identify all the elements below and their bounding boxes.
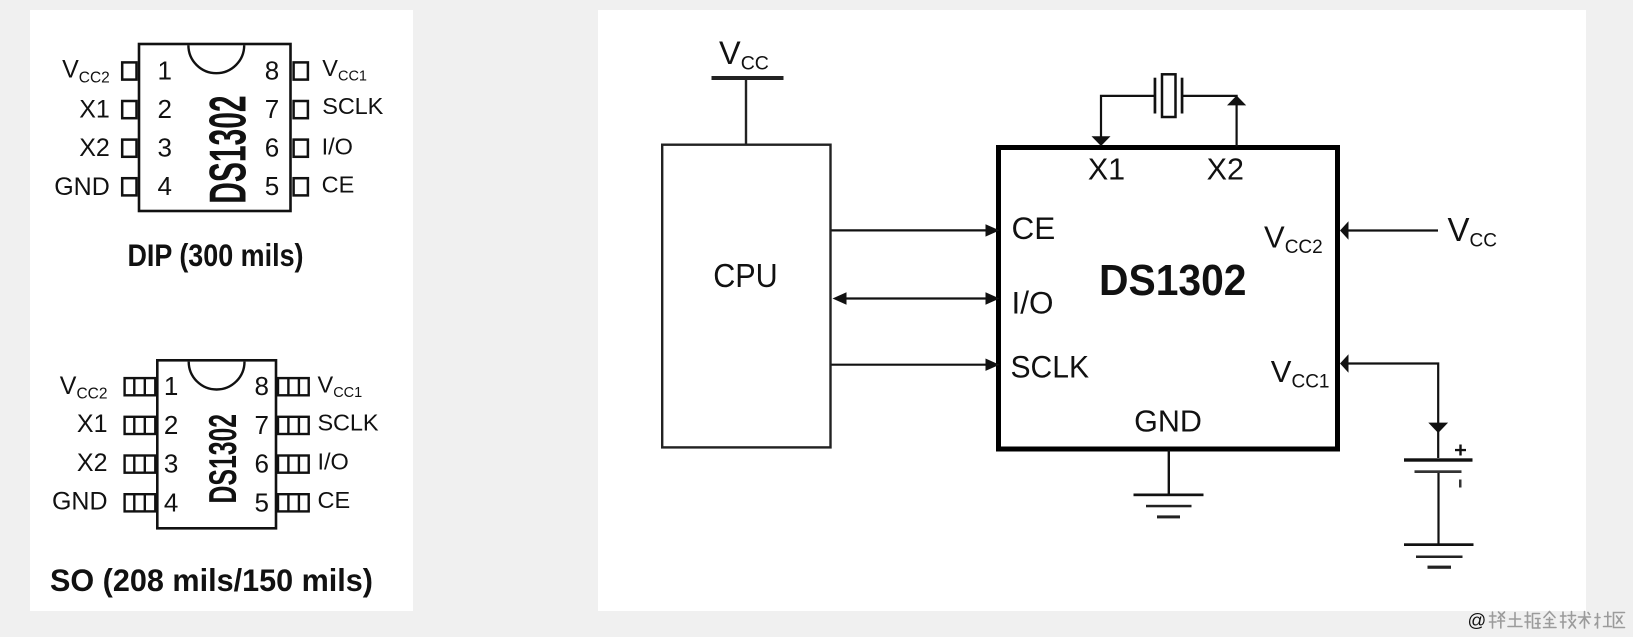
svg-text:1: 1 bbox=[164, 371, 178, 401]
ground (GND pin) bbox=[1134, 494, 1204, 497]
svg-text:GND: GND bbox=[52, 488, 108, 516]
right white panel bbox=[598, 10, 1586, 611]
wire VCC to VCC2 pin bbox=[1347, 229, 1438, 231]
pin 3 pad bbox=[125, 456, 156, 473]
svg-text:I/O: I/O bbox=[318, 448, 349, 474]
pin 1 pad bbox=[122, 62, 136, 79]
crystal Y1 wire to X2 bbox=[1182, 96, 1237, 147]
pin 4 pad bbox=[122, 178, 136, 195]
glyph she bbox=[1595, 612, 1612, 628]
svg-text:GND: GND bbox=[54, 173, 110, 201]
svg-text:8: 8 bbox=[265, 55, 279, 85]
svg-text:2: 2 bbox=[158, 94, 172, 124]
glyph shu bbox=[1579, 612, 1591, 629]
svg-text:I/O: I/O bbox=[1012, 285, 1054, 321]
IC body U1 DIP bbox=[139, 44, 291, 211]
arrowhead into VCC1 bbox=[1340, 354, 1349, 372]
wire VCC to CPU bbox=[745, 80, 747, 145]
svg-text:8: 8 bbox=[255, 371, 269, 401]
arrowhead down toward battery bbox=[1428, 423, 1448, 433]
VCC supply bar bbox=[712, 76, 784, 80]
svg-text:DS1302: DS1302 bbox=[199, 95, 256, 203]
pin 5 pad bbox=[278, 494, 309, 511]
pin 3 pad bbox=[122, 140, 136, 157]
svg-text:X2: X2 bbox=[79, 134, 110, 162]
svg-text:X1: X1 bbox=[1088, 153, 1125, 187]
svg-text:CE: CE bbox=[318, 487, 351, 513]
watermark bbox=[1468, 610, 1625, 631]
pin 8 pad bbox=[278, 378, 309, 395]
pin 7 pad bbox=[278, 417, 309, 434]
crystal Y1 body bbox=[1162, 74, 1176, 117]
arrowhead I/O into DS1302 bbox=[986, 292, 1000, 304]
glyph jin bbox=[1544, 612, 1557, 628]
svg-text:5: 5 bbox=[255, 487, 269, 517]
battery B1 negative plate bbox=[1415, 470, 1462, 473]
svg-text:I/O: I/O bbox=[322, 134, 353, 160]
svg-text:7: 7 bbox=[255, 410, 269, 440]
glyph qu bbox=[1614, 613, 1625, 628]
IC U2 DS1302 box bbox=[999, 148, 1338, 450]
crystal Y1 left plate bbox=[1154, 78, 1157, 114]
CPU box bbox=[662, 145, 830, 448]
svg-text:X2: X2 bbox=[77, 449, 108, 477]
glyph xi bbox=[1490, 612, 1505, 628]
svg-text:CE: CE bbox=[1012, 210, 1056, 246]
wire SCLK (CPU to DS1302) bbox=[832, 364, 987, 366]
svg-text:CE: CE bbox=[322, 172, 355, 198]
pin 8 pad bbox=[294, 62, 308, 79]
arrowhead into VCC2 bbox=[1340, 221, 1349, 239]
left white panel bbox=[30, 10, 413, 611]
svg-text:DS1302: DS1302 bbox=[201, 414, 244, 504]
arrowhead I/O into CPU bbox=[833, 292, 847, 304]
crystal Y1 wire to X1 bbox=[1101, 96, 1155, 137]
glyph tu bbox=[1508, 613, 1522, 627]
glyph jue bbox=[1525, 612, 1540, 628]
arrowhead SCLK into DS1302 bbox=[986, 359, 1000, 371]
wire battery to VCC1 pin bbox=[1348, 364, 1438, 459]
svg-text:4: 4 bbox=[158, 171, 172, 201]
svg-text:DIP (300 mils): DIP (300 mils) bbox=[128, 237, 304, 273]
svg-text:3: 3 bbox=[164, 449, 178, 479]
svg-text:7: 7 bbox=[265, 94, 279, 124]
svg-text:X2: X2 bbox=[1207, 153, 1244, 187]
svg-text:@: @ bbox=[1468, 610, 1487, 631]
svg-text:SO (208 mils/150 mils): SO (208 mils/150 mils) bbox=[50, 562, 373, 598]
svg-text:2: 2 bbox=[164, 410, 178, 440]
svg-text:X1: X1 bbox=[79, 96, 110, 124]
svg-text:SCLK: SCLK bbox=[318, 410, 379, 436]
pin 4 pad bbox=[125, 494, 156, 511]
svg-text:GND: GND bbox=[1134, 405, 1202, 439]
pin 2 pad bbox=[122, 101, 136, 118]
pin 2 pad bbox=[125, 417, 156, 434]
pin 7 pad bbox=[294, 101, 308, 118]
svg-text:DS1302: DS1302 bbox=[1099, 257, 1247, 305]
svg-text:1: 1 bbox=[158, 55, 172, 85]
svg-text:6: 6 bbox=[265, 133, 279, 163]
wire I/O (bidirectional) bbox=[845, 297, 986, 299]
svg-text:3: 3 bbox=[158, 133, 172, 163]
pin 6 pad bbox=[294, 140, 308, 157]
svg-text:5: 5 bbox=[265, 171, 279, 201]
battery B1 positive plate bbox=[1404, 458, 1473, 461]
svg-text:CPU: CPU bbox=[713, 258, 778, 295]
ground (battery) bbox=[1404, 543, 1474, 546]
pin 1 pad bbox=[125, 378, 156, 395]
arrowhead into X1 bbox=[1092, 136, 1111, 146]
notch (pin-1 index semicircle) bbox=[188, 45, 244, 73]
svg-text:SCLK: SCLK bbox=[322, 93, 383, 119]
glyph ji bbox=[1561, 612, 1576, 629]
notch (pin-1 index semicircle) bbox=[189, 362, 245, 390]
battery plus sign bbox=[1455, 449, 1466, 451]
svg-text:SCLK: SCLK bbox=[1011, 349, 1090, 385]
crystal Y1 right plate bbox=[1181, 78, 1184, 114]
IC body U1 SO bbox=[157, 360, 276, 528]
pin 6 pad bbox=[278, 456, 309, 473]
svg-text:4: 4 bbox=[164, 487, 178, 517]
wire GND pin to ground bbox=[1168, 450, 1170, 494]
wire battery to ground bbox=[1437, 473, 1439, 544]
svg-text:6: 6 bbox=[255, 449, 269, 479]
battery minus tick bbox=[1459, 480, 1462, 488]
wire CE (CPU to DS1302) bbox=[832, 229, 987, 231]
pin 5 pad bbox=[294, 178, 308, 195]
arrowhead up at X2 wire bbox=[1227, 96, 1246, 106]
svg-text:X1: X1 bbox=[77, 410, 108, 438]
arrowhead CE into DS1302 bbox=[986, 224, 1000, 236]
